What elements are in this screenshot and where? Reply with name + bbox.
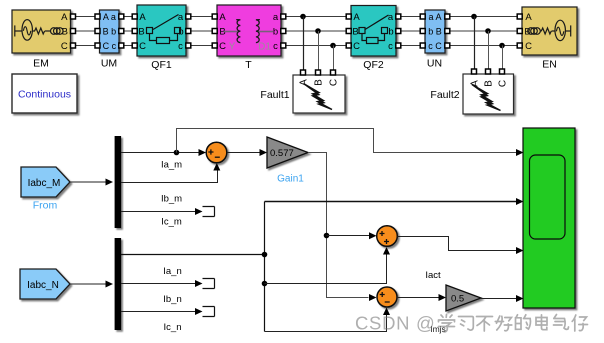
wire Ib_m demux1 out2 to Sum1 minus input (121, 163, 220, 183)
wire UM.a to QF1.A (123, 16, 132, 18)
svg-text:A a: A a (103, 12, 116, 22)
svg-text:Fault1: Fault1 (260, 89, 289, 101)
fault block Fault1 (293, 75, 345, 113)
svg-text:UM: UM (101, 58, 117, 70)
transformer block T (217, 5, 281, 56)
wire junction C down to Fault2.C (502, 46, 504, 70)
svg-text:From: From (33, 200, 58, 212)
EN input ports A B C (517, 14, 522, 48)
UN right ports (445, 14, 450, 48)
wire Iabc_M to demux1 (70, 179, 113, 186)
wire QF2.a to UN.a (401, 16, 421, 18)
wire UN.A to EN.A (450, 16, 518, 18)
node junction Ia_n to Sum2 branch (262, 281, 268, 287)
svg-text:b: b (273, 27, 278, 38)
CSDN watermark text (355, 313, 436, 334)
watermark CJK glyphs (hand drawn) (439, 315, 588, 332)
svg-text:c: c (178, 41, 183, 52)
wire UN.C to EN.C (450, 45, 518, 47)
svg-text:Ia_n: Ia_n (163, 266, 182, 277)
svg-text:D1: D1 (258, 42, 271, 53)
svg-text:a: a (178, 12, 184, 23)
svg-text:B: B (484, 80, 495, 87)
svg-text:UN: UN (427, 58, 442, 70)
svg-text:EM: EM (33, 58, 49, 70)
wire Ic_n demux2 out3 to terminator (121, 308, 203, 315)
wire EM.B to UM.B (76, 30, 96, 32)
QF1 right ports (186, 14, 191, 48)
wire UN.B to EN.B (450, 30, 518, 32)
node junction phase B to Fault2 (485, 28, 491, 34)
wire QF2.b to UN.b (401, 30, 421, 32)
QF2 left ports (346, 14, 351, 48)
Fault1 lightning bolt icon (304, 84, 333, 110)
demux1 (mux bar for Iabc_M) (115, 136, 122, 228)
wire Ib_n demux2 out2 to terminator (121, 280, 203, 287)
svg-text:Iabc_N: Iabc_N (27, 280, 59, 291)
svg-text:EN: EN (542, 59, 557, 71)
UM left ports (95, 14, 100, 48)
svg-text:A: A (139, 12, 146, 23)
wire junction B down to Fault1.B (318, 31, 320, 70)
svg-text:Ic_m: Ic_m (161, 217, 182, 228)
svg-text:QF1: QF1 (151, 59, 172, 71)
svg-text:C: C (353, 41, 360, 52)
fault block Fault2 (463, 74, 514, 114)
Fault1 top ports A B C (301, 70, 336, 75)
svg-text:A: A (219, 12, 226, 23)
From tag Iabc_M (21, 167, 70, 197)
terminator for Ic_n (203, 307, 215, 317)
svg-text:A: A (61, 12, 68, 23)
QF1 left ports (132, 14, 137, 48)
EN source icon (inductor, resistor, AC source circle, terminal bar) (528, 20, 571, 40)
svg-text:0.5: 0.5 (451, 294, 464, 305)
wire UM.c to QF1.C (123, 45, 132, 47)
svg-text:Fault2: Fault2 (430, 89, 459, 101)
svg-text:a A: a A (428, 12, 441, 22)
T winding icon (224, 20, 274, 43)
measurement block UM (100, 10, 120, 53)
node junction phase B to Fault1 (315, 28, 321, 34)
svg-text:Continuous: Continuous (18, 89, 71, 101)
T right ports (281, 14, 286, 48)
scope block (green) (523, 128, 575, 308)
svg-text:QF2: QF2 (363, 59, 384, 71)
Fault2 lightning bolt icon (472, 85, 501, 111)
svg-text:c: c (388, 41, 393, 52)
wire T.a to QF2.A (286, 16, 347, 18)
arrow into Sum3 plus input (369, 294, 377, 301)
terminator for Ib_n (203, 279, 215, 289)
wire QF2.c to UN.c (401, 45, 421, 47)
wire QF1.b to T.B (191, 30, 213, 32)
svg-text:c: c (273, 41, 278, 52)
UM right ports (119, 14, 124, 48)
wire Sum1 to Gain1 (227, 149, 267, 156)
wire Ia_n branch to Sum3 bottom input (265, 308, 391, 332)
QF1 breaker icon (147, 15, 181, 44)
sum block Sum3 (377, 287, 397, 307)
svg-text:A: A (353, 12, 360, 23)
EM output ports A B C (71, 14, 76, 48)
svg-text:Iact: Iact (425, 270, 441, 281)
wire junction C down to Fault1.C (333, 46, 335, 71)
node junction phase A to Fault1 (300, 14, 306, 20)
svg-text:b B: b B (428, 27, 442, 37)
svg-text:CSDN @: CSDN @ (355, 313, 436, 334)
wire EM.C to UM.C (76, 45, 96, 47)
wire Ia_n up to Scope input 2 (265, 198, 524, 205)
wire junction A down to Fault2.A (474, 17, 476, 70)
QF2 right ports (396, 14, 401, 48)
wire QF1.a to T.A (191, 16, 213, 18)
gain block Gain1 0.577 (267, 137, 308, 168)
svg-text:Ic_n: Ic_n (164, 322, 182, 333)
svg-text:0.577: 0.577 (270, 148, 294, 159)
wire junction A down to Fault1.A (303, 17, 305, 71)
sum block Sum2 (377, 226, 398, 247)
breaker block QF2 (351, 6, 396, 57)
svg-text:c C: c C (428, 41, 442, 51)
svg-text:C c: C c (103, 41, 117, 51)
source block EN (522, 7, 577, 55)
wire QF1.c to T.C (191, 45, 213, 47)
svg-text:A: A (525, 12, 532, 23)
svg-text:C: C (525, 41, 532, 52)
svg-text:a: a (388, 12, 394, 23)
wire Gain1 output down to Sum2 and Sum3 (308, 153, 369, 298)
T left ports (212, 14, 217, 48)
wire junction B down to Fault2.B (488, 31, 490, 69)
wire Sum2 to Scope input 3 (397, 237, 523, 255)
svg-text:B b: B b (103, 27, 117, 37)
demux2 (mux bar for Iabc_N) (115, 238, 122, 330)
wire T.c to QF2.C (286, 45, 347, 47)
From tag Iabc_N (20, 269, 70, 299)
terminator for Ic_m (203, 207, 215, 217)
svg-text:a: a (273, 12, 279, 23)
EM source icon (terminal bar, AC source circle, resistor, inductor) (15, 20, 63, 41)
gain block 0.5 (446, 285, 481, 311)
wire T.b to QF2.B (286, 30, 347, 32)
wire Ia_n vertical bus (264, 202, 266, 332)
wire gain 0.5 to Scope input 4 (481, 295, 524, 302)
UN left ports (420, 14, 425, 48)
wire Ia_n demux2 out1 to junction (121, 254, 265, 256)
Fault2 top ports A B C (472, 69, 505, 74)
svg-text:C: C (498, 80, 509, 87)
wire Ia_n branch to Sum2 bottom input (265, 247, 391, 284)
svg-text:Ib_n: Ib_n (163, 294, 182, 305)
svg-text:B: B (314, 79, 325, 86)
svg-text:B: B (352, 27, 358, 38)
svg-text:C: C (139, 41, 146, 52)
powergui block Continuous (12, 74, 77, 113)
node junction phase A to Fault2 (471, 14, 477, 20)
wire Ia_m demux1 out1 to Sum1 (121, 149, 206, 156)
svg-text:C: C (329, 79, 340, 86)
svg-text:Gain1: Gain1 (277, 174, 304, 185)
wire UM.b to QF1.B (123, 30, 132, 32)
measurement block UN (425, 10, 445, 53)
svg-text:T: T (245, 59, 252, 71)
breaker block QF1 (137, 5, 186, 56)
node junction on Ia_m (174, 150, 180, 156)
svg-text:Ib_m: Ib_m (161, 194, 182, 205)
svg-text:Y: Y (229, 42, 236, 53)
wire Iabc_N to demux2 (70, 281, 113, 288)
wire Ic_m demux1 out3 to terminator (121, 208, 203, 215)
node junction phase C to Fault1 (330, 43, 336, 49)
node junction phase C to Fault2 (499, 43, 505, 49)
svg-text:Ia_m: Ia_m (161, 160, 182, 171)
sum block Sum1 (206, 142, 227, 163)
source block EM (12, 10, 71, 53)
wire junction to Sum2 plus input (327, 232, 377, 239)
wire Sum3 to gain 0.5 (397, 294, 446, 301)
svg-text:C: C (219, 41, 226, 52)
svg-text:b: b (388, 27, 393, 38)
wire EM.A to UM.A (76, 16, 96, 18)
wire Ia_m branch up and over to Scope input 1 (177, 129, 524, 157)
svg-text:C: C (61, 41, 68, 52)
node junction Ia_n (262, 252, 268, 258)
svg-text:B: B (138, 27, 144, 38)
svg-text:A: A (299, 79, 310, 86)
svg-text:Iabc_M: Iabc_M (28, 178, 61, 189)
QF2 breaker icon (359, 15, 389, 44)
node junction Gain1 branch to Sum2 (324, 233, 330, 239)
